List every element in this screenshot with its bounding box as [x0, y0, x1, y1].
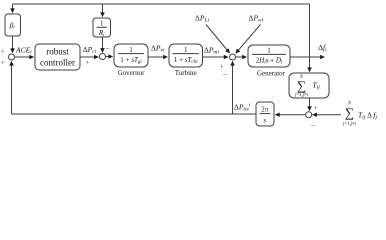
- wire frequency branch down into sum block: [309, 57, 311, 72]
- wire generator output with df_i arrow: [290, 56, 324, 58]
- svg-text:ΔPLi: ΔPLi: [195, 14, 209, 24]
- svg-text:2His + Di: 2His + Di: [256, 57, 283, 66]
- wire controller output to droop junction: [80, 56, 98, 58]
- svg-text:+: +: [314, 105, 318, 112]
- wire frequency branch up to top line: [309, 4, 311, 57]
- svg-text:1: 1: [129, 46, 133, 54]
- wire tie-line feedback up into generator junction: [232, 61, 234, 114]
- svg-text:∑: ∑: [345, 105, 354, 120]
- block generator: [248, 45, 290, 78]
- svg-text:+: +: [1, 60, 5, 67]
- wire ACE to robust controller: [15, 56, 34, 58]
- wire turbine to generator junction: [203, 56, 229, 58]
- block 2pi/s: [256, 102, 274, 126]
- summing junction generator input: [230, 54, 236, 60]
- svg-text:+: +: [220, 64, 224, 71]
- wire tie junction into 2pi/s block: [275, 114, 305, 116]
- svg-text:Δfi: Δfi: [318, 43, 327, 53]
- svg-text:j=1,j≠i: j=1,j≠i: [294, 93, 309, 98]
- svg-text:ACEi: ACEi: [15, 45, 32, 55]
- svg-text:s: s: [263, 117, 266, 125]
- wire governor to turbine: [148, 56, 167, 58]
- wire tie-line feedback up into ACE junction: [11, 61, 13, 114]
- wire junction to generator block: [236, 56, 247, 58]
- wire sum block down into tie junction: [309, 98, 311, 111]
- block robust controller U1: [35, 44, 80, 70]
- svg-text:Generator: Generator: [257, 70, 286, 78]
- summing junction droop: [100, 54, 106, 60]
- wire drop into 1/R_i block: [102, 4, 104, 17]
- wire top feedback line: [13, 3, 310, 5]
- svg-text:j=1,j≠i: j=1,j≠i: [342, 122, 357, 127]
- svg-text:∑: ∑: [297, 78, 306, 93]
- wire droop junction to governor: [106, 56, 113, 58]
- wire beta_i output into ACE junction: [12, 36, 14, 53]
- svg-text:+: +: [1, 49, 5, 56]
- svg-text:robust: robust: [46, 47, 69, 57]
- wire dP_wi diagonal into generator junction: [236, 25, 261, 54]
- svg-text:ΔPtiei: ΔPtiei: [234, 103, 251, 113]
- summing junction tie-line: [306, 112, 312, 118]
- svg-text:Turbine: Turbine: [175, 69, 197, 77]
- svg-text:Tij Δ fj: Tij Δ fj: [358, 111, 378, 121]
- block governor: [114, 44, 148, 77]
- wire tie-line power feedback to left: [12, 113, 257, 115]
- svg-text:+: +: [86, 60, 90, 67]
- svg-text:2π: 2π: [261, 106, 269, 114]
- svg-text:−: −: [311, 122, 315, 130]
- wire drop into beta_i block: [12, 4, 14, 13]
- block beta_i: [5, 14, 21, 36]
- wire 1/R_i output down into droop junction: [102, 37, 104, 52]
- svg-text:−: −: [106, 45, 110, 53]
- svg-text:1: 1: [100, 20, 104, 28]
- block 1/R_i: [93, 18, 111, 38]
- svg-text:ΔPci: ΔPci: [83, 45, 97, 55]
- node external tie flow label: [342, 102, 377, 128]
- wire external input into tie junction: [313, 114, 341, 116]
- wire dP_Li diagonal into generator junction: [206, 25, 230, 54]
- svg-text:ΔPmi: ΔPmi: [204, 46, 219, 56]
- svg-text:Governor: Governor: [118, 69, 145, 77]
- svg-text:ΔPwi: ΔPwi: [249, 14, 264, 24]
- svg-text:ΔPvi: ΔPvi: [151, 44, 165, 54]
- svg-text:1: 1: [184, 46, 188, 54]
- svg-text:−: −: [223, 71, 227, 79]
- svg-text:1: 1: [267, 47, 271, 55]
- summing junction ACE: [9, 54, 15, 60]
- block tie-line sum of T_ij: [289, 73, 329, 98]
- svg-text:controller: controller: [40, 58, 75, 68]
- block turbine: [169, 44, 203, 77]
